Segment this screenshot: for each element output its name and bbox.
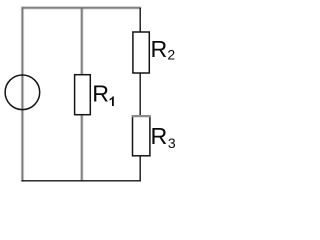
svg-text:R: R <box>151 123 168 149</box>
resistor R2 <box>133 32 149 73</box>
resistor R1 <box>75 75 91 115</box>
source circle <box>5 75 40 110</box>
svg-text:2: 2 <box>167 47 175 63</box>
wire bottom (black) <box>21 180 140 182</box>
svg-text:R: R <box>92 81 109 107</box>
wire right (black) <box>139 8 141 181</box>
wire top (gray) <box>21 7 140 9</box>
wire middle (gray) <box>81 8 83 181</box>
resistor R3 <box>133 116 150 156</box>
resistor R3 top edge (gray) <box>132 115 151 117</box>
svg-text:3: 3 <box>168 135 176 151</box>
wire left (gray) <box>21 7 23 181</box>
svg-text:R: R <box>151 36 168 62</box>
